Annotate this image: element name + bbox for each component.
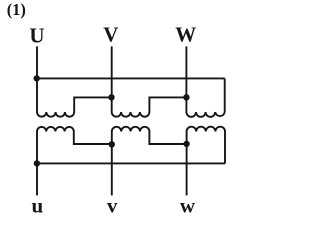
node W1 (junction dot, W line / L2 exit) [183,94,189,100]
wire u lead [36,163,38,195]
wire top bus [37,77,225,79]
svg-text:w: w [180,193,196,217]
wire W lead [185,46,187,112]
winding L5 (secondary, phase v) [112,127,150,132]
wire L4 left to bottom bus [36,132,38,164]
wire L2 to node W1 [149,97,186,112]
node U1 (junction dot, U line / top bus) [34,75,40,81]
wire w lead [186,144,188,195]
wire bottom bus [37,162,225,164]
wire L4 to node v2 [74,132,112,145]
svg-text:u: u [31,193,43,217]
wire L5 left from node v2 [111,132,113,145]
wire L6 riser to bottom bus [224,132,226,164]
node w2 (junction dot, w line / L5 exit) [183,141,189,147]
node u2 (junction dot, u line / bottom bus) [34,160,40,166]
wire L6 left from node w2 [186,132,188,145]
node v2 (junction dot, v line / L4 exit) [109,141,115,147]
node V1 (junction dot, V line / L1 exit) [108,94,114,100]
wire U lead [36,46,38,112]
winding L3 (primary, phase W) [186,112,224,117]
wire v lead [111,144,113,195]
winding L2 (primary, phase V) [112,112,150,117]
winding L6 (secondary, phase w) [187,127,225,132]
wire L1 to node V1 [74,97,111,112]
winding L1 (primary, phase U) [37,112,74,117]
svg-text:W: W [175,22,196,46]
wire L5 to node w2 [149,132,186,145]
wire V lead [111,46,113,112]
svg-text:(1): (1) [7,0,26,19]
svg-text:U: U [29,23,44,47]
svg-text:v: v [107,193,118,217]
svg-text:V: V [103,22,118,46]
winding L4 (secondary, phase u) [37,127,74,132]
wire L3 riser to top bus [224,78,226,112]
